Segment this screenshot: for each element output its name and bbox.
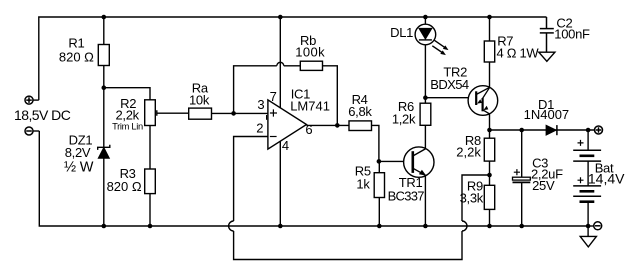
- resistor R3: [145, 169, 156, 194]
- svg-text:1,2k: 1,2k: [392, 112, 416, 127]
- wire pin 4: [279, 141, 281, 226]
- svg-text:8,2V: 8,2V: [65, 145, 91, 160]
- wire stub to minus terminal: [588, 225, 593, 227]
- svg-text:BC337: BC337: [388, 188, 425, 203]
- svg-text:4: 4: [282, 138, 289, 153]
- node R9 rail junction: [487, 224, 492, 229]
- ground under C2: [539, 52, 555, 61]
- node TR1 emitter rail junction: [423, 224, 428, 229]
- trimmer R2: [145, 100, 156, 126]
- svg-text:10k: 10k: [189, 93, 210, 108]
- resistor Rb: [300, 61, 322, 70]
- node DZ1 rail junction: [102, 224, 107, 229]
- wire R4 to TR1 base node: [372, 125, 379, 161]
- node R3 rail junction: [148, 224, 153, 229]
- svg-text:2,2k: 2,2k: [456, 145, 481, 160]
- wire base to TR1: [379, 160, 404, 162]
- wire TR1 emitter to rail: [424, 175, 426, 226]
- capacitor C3: [513, 130, 531, 226]
- wire hop to Rb: [284, 65, 301, 67]
- wire top rail: [39, 17, 547, 100]
- wire hop over pin7: [277, 62, 284, 66]
- svg-text:Trim Lin: Trim Lin: [112, 121, 143, 131]
- wire minus input stub: [33, 130, 39, 132]
- node pin4 rail junction: [278, 224, 283, 229]
- wire plus input stub: [33, 99, 39, 101]
- wire Ra to pin3: [212, 112, 268, 114]
- svg-text:BDX54: BDX54: [430, 77, 469, 92]
- resistor R7: [484, 41, 494, 62]
- node pin7 top rail junction: [278, 15, 283, 20]
- resistor R9: [484, 185, 494, 209]
- svg-text:6,8k: 6,8k: [348, 104, 372, 119]
- wire TR2 base: [425, 97, 468, 99]
- wire node to R5: [378, 161, 380, 172]
- zener DZ1: [98, 145, 110, 226]
- wire R3 to rail: [149, 194, 151, 226]
- svg-text:2: 2: [256, 121, 263, 136]
- node R1 top rail junction: [102, 15, 107, 20]
- op-amp U1 triangle: [268, 100, 307, 149]
- svg-text:100nF: 100nF: [554, 26, 590, 41]
- svg-text:100k: 100k: [295, 44, 325, 59]
- battery Bat: [573, 130, 601, 226]
- wire output pin6: [307, 124, 350, 126]
- node output junction: [335, 123, 340, 128]
- node R7 top rail junction: [487, 15, 492, 20]
- minus mark pin2: [270, 136, 277, 138]
- wire node A to DZ1: [103, 88, 105, 148]
- node C3 junction: [519, 128, 524, 133]
- wire TR2 collector down: [489, 114, 491, 130]
- ground under battery: [587, 226, 589, 236]
- wire lower feedback: [234, 231, 462, 260]
- resistor R4: [349, 121, 372, 131]
- svg-text:3,3k: 3,3k: [460, 191, 484, 206]
- resistor R8: [484, 138, 494, 161]
- wire riser to R8/R9 node: [462, 175, 490, 221]
- svg-text:DL1: DL1: [390, 25, 413, 40]
- wire bottom rail: [39, 131, 588, 226]
- tick mark near pin3: [266, 115, 268, 120]
- diode D1: [546, 125, 557, 135]
- terminal - output: [594, 222, 602, 230]
- node R8/R9 junction: [487, 173, 492, 178]
- node A junction: [102, 85, 107, 90]
- wire R5 to rail: [378, 198, 380, 227]
- node battery junction: [586, 128, 591, 133]
- transistor TR2: [468, 86, 498, 116]
- node DL1 top rail junction: [423, 15, 428, 20]
- wire DL1 column: [424, 17, 426, 103]
- terminal - input: [25, 127, 33, 135]
- svg-text:1N4007: 1N4007: [524, 107, 570, 122]
- transistor TR1: [404, 147, 434, 177]
- svg-text:LM741: LM741: [290, 98, 330, 113]
- node battery rail junction: [586, 224, 591, 229]
- wire hop riser over rail: [462, 221, 467, 231]
- plus mark pin3: [270, 109, 277, 116]
- wire hop pin2 over rail: [229, 221, 234, 231]
- svg-text:3: 3: [257, 97, 264, 112]
- wiper of R2: [157, 110, 189, 116]
- wire output to battery line: [490, 129, 595, 131]
- wire R7 column: [489, 17, 491, 87]
- terminal + output: [595, 126, 603, 134]
- wire node A to R2: [104, 88, 150, 100]
- svg-text:6: 6: [305, 122, 312, 137]
- wire R9 to rail: [489, 209, 491, 226]
- node B junction: [231, 111, 236, 116]
- wire R1 to node A: [103, 66, 105, 88]
- svg-text:820 Ω: 820 Ω: [107, 179, 142, 194]
- wire pin 2 input: [234, 137, 268, 222]
- resistor Ra: [189, 108, 212, 119]
- svg-text:18,5V DC: 18,5V DC: [14, 107, 71, 123]
- wire pin 7: [279, 17, 281, 108]
- node R5 rail junction: [377, 224, 382, 229]
- wire R1 column top: [103, 17, 105, 45]
- svg-text:2,2k: 2,2k: [116, 108, 140, 123]
- svg-text:7: 7: [270, 89, 277, 104]
- svg-text:½ W: ½ W: [64, 159, 94, 175]
- svg-text:14,4V: 14,4V: [588, 170, 625, 186]
- svg-text:4 Ω 1W: 4 Ω 1W: [497, 45, 540, 60]
- svg-text:1k: 1k: [356, 177, 370, 192]
- svg-text:820 Ω: 820 Ω: [59, 49, 94, 64]
- capacitor C2: [540, 17, 554, 52]
- node C3 rail junction: [519, 224, 524, 229]
- terminal + input: [25, 96, 33, 104]
- node TR2 collector junction: [487, 128, 492, 133]
- wire R2 to R3: [149, 126, 151, 170]
- wire Rb to output: [323, 66, 338, 126]
- node DL1/R6/TR2 junction: [423, 95, 428, 100]
- LED DL1: [415, 24, 448, 55]
- resistor R1: [98, 45, 109, 66]
- node TR1 base junction: [377, 159, 382, 164]
- resistor R6: [420, 103, 431, 125]
- wire R8 leads: [489, 130, 491, 185]
- svg-text:25V: 25V: [532, 178, 555, 193]
- resistor R5: [374, 173, 384, 198]
- wire TR1 collector to R6: [424, 125, 426, 149]
- wire feedback riser: [234, 66, 277, 114]
